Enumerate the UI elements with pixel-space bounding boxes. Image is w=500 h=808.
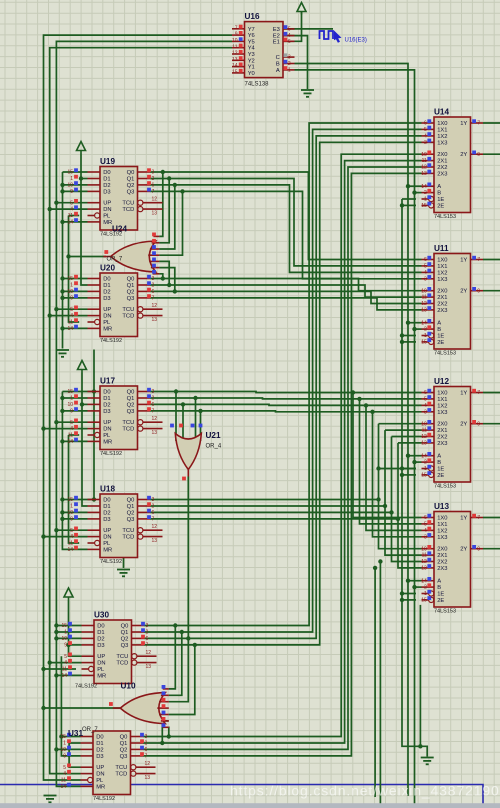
junction bus-A / U10 output: [41, 706, 45, 710]
svg-text:D2: D2: [103, 289, 110, 295]
wire U30.Q2 to U14.1X2: [144, 136, 422, 639]
junction select-A / U13.A: [406, 579, 410, 583]
svg-text:7: 7: [145, 754, 148, 760]
svg-text:1E: 1E: [437, 467, 444, 473]
wire select-B to U13.B: [415, 586, 422, 588]
wire block2 bus to U17.D1: [62, 397, 87, 399]
svg-text:2X3: 2X3: [437, 171, 447, 177]
svg-text:DN: DN: [103, 207, 111, 213]
svg-text:D1: D1: [103, 504, 110, 510]
junction VCC / U30.D3: [66, 643, 70, 647]
wire enable bus to U13.2E: [402, 599, 416, 601]
wire U19.Q0 to U11.1X0: [150, 172, 422, 260]
svg-text:2X0: 2X0: [437, 289, 447, 295]
svg-text:PL: PL: [97, 667, 105, 673]
wire U11.2Y to edge: [483, 290, 500, 292]
svg-text:U13: U13: [434, 502, 449, 511]
junction select-B / U14.B: [412, 190, 416, 194]
wire U18.Q0 vertical U12.2X4 to U13.2X4: [379, 424, 422, 549]
junction gnd bus / U19.D2: [60, 183, 64, 187]
wire PL bus to U18.PL: [69, 435, 80, 543]
svg-text:4: 4: [70, 426, 73, 432]
wire U19.Q2 to U11.1X2: [150, 185, 422, 273]
junction U17.Q / U21 feed: [181, 402, 185, 406]
wire bus-C to U30.D1: [56, 631, 81, 633]
svg-text:11: 11: [232, 44, 237, 50]
junction U20.Q / U24 feed: [167, 283, 171, 287]
svg-text:13: 13: [152, 317, 158, 323]
junction bus-C / U30.D2: [54, 636, 58, 640]
svg-text:2: 2: [288, 61, 291, 67]
svg-text:Q1: Q1: [127, 504, 135, 510]
svg-text:14: 14: [421, 184, 427, 190]
svg-text:74LS153: 74LS153: [434, 609, 456, 615]
svg-text:9: 9: [70, 409, 73, 415]
svg-text:10: 10: [421, 152, 427, 158]
svg-text:74LS192: 74LS192: [100, 451, 122, 457]
wire U17.Q feed to U21 input: [195, 398, 197, 441]
svg-text:1X0: 1X0: [437, 258, 447, 264]
state square U10 output: [109, 702, 113, 706]
svg-text:DN: DN: [97, 661, 105, 667]
junction local bus / U31.D0: [59, 734, 63, 738]
wire enable bus vertical to ground: [402, 199, 427, 757]
svg-text:10: 10: [421, 288, 427, 294]
svg-text:5: 5: [424, 127, 427, 133]
power VCC arrow (left top): [77, 142, 86, 154]
svg-text:12: 12: [146, 650, 152, 656]
wire U19.Q1 to U11.1X1: [150, 179, 422, 266]
svg-text:1Y: 1Y: [460, 391, 467, 397]
svg-text:11: 11: [68, 320, 73, 326]
wire U12.2Y to edge: [483, 423, 500, 425]
svg-text:15: 15: [421, 598, 427, 604]
wire U17.Q2 to U12.1X2: [150, 404, 422, 405]
svg-text:2X1: 2X1: [437, 159, 447, 165]
svg-text:2: 2: [146, 630, 149, 636]
wire bus-B to U30.DN: [50, 662, 82, 664]
svg-text:14: 14: [421, 320, 427, 326]
svg-text:PL: PL: [96, 778, 104, 784]
svg-text:5: 5: [424, 522, 427, 528]
wire U30.Q feed to U10 input: [169, 632, 182, 695]
svg-text:2E: 2E: [437, 473, 444, 479]
svg-text:2E: 2E: [437, 598, 444, 604]
wire U11.1Y to edge: [483, 259, 500, 261]
wire bus-C to U19.UP: [56, 202, 87, 204]
junction U31.Q / U10 feed: [167, 734, 171, 738]
svg-text:5: 5: [288, 27, 291, 33]
junction U20.Q / U24 feed: [161, 276, 165, 280]
wire enable bus to U11.1E: [402, 335, 416, 337]
wire VCC branch to U19.D1: [81, 178, 88, 180]
junction U18.Q2 / feed vertical: [389, 510, 393, 514]
svg-text:3: 3: [146, 623, 149, 629]
svg-text:D0: D0: [103, 390, 110, 396]
svg-text:14: 14: [60, 784, 66, 790]
svg-text:DN: DN: [103, 427, 111, 433]
junction U18.Q3 / feed vertical: [396, 517, 400, 521]
svg-text:1E: 1E: [437, 592, 444, 598]
svg-text:1: 1: [424, 466, 427, 472]
svg-text:2X0: 2X0: [437, 422, 447, 428]
svg-text:U24: U24: [112, 225, 127, 234]
wire U18.Q0 horizontal: [150, 499, 379, 501]
svg-text:B: B: [437, 585, 441, 591]
svg-text:3: 3: [288, 55, 291, 61]
svg-text:11: 11: [422, 553, 427, 559]
svg-text:2: 2: [145, 741, 148, 747]
svg-text:3: 3: [152, 389, 155, 395]
junction VCC / U17.D2: [80, 402, 84, 406]
svg-text:14: 14: [61, 673, 67, 679]
svg-text:2X3: 2X3: [437, 566, 447, 572]
svg-text:2: 2: [152, 504, 155, 510]
wire U17.Q feed to U21 input: [182, 404, 184, 441]
junction U18.Q0 / feed vertical: [376, 497, 380, 501]
junction gnd bus / U19.MR: [60, 220, 64, 224]
svg-text:12: 12: [421, 165, 427, 171]
wire bus-C to U20.UP: [56, 308, 87, 310]
junction U21 net / U30.Q2: [186, 636, 190, 640]
junction block2 bus / U18.D3: [60, 517, 64, 521]
svg-text:TCD: TCD: [122, 314, 134, 320]
svg-text:7: 7: [477, 515, 480, 521]
svg-text:12: 12: [152, 416, 158, 422]
junction enable bus / U11.2E: [400, 340, 404, 344]
svg-text:D3: D3: [103, 189, 110, 195]
svg-text:74LS192: 74LS192: [75, 684, 97, 690]
wire tap U12.1X2 down to U13.1X2: [366, 405, 422, 530]
svg-text:PL: PL: [103, 541, 111, 547]
wire U30.Q feed to U10 input: [169, 626, 176, 689]
junction select-A / U11.A: [406, 321, 410, 325]
svg-text:1: 1: [424, 197, 427, 203]
svg-text:3: 3: [424, 409, 427, 415]
wire local bus to U31.D0: [61, 736, 80, 738]
junction bus-A / U18.DN: [41, 534, 45, 538]
watermark bar: [0, 803, 500, 808]
svg-text:1X2: 1X2: [437, 403, 447, 409]
svg-text:6: 6: [424, 390, 427, 396]
svg-text:4: 4: [70, 207, 73, 213]
svg-text:11: 11: [422, 295, 427, 301]
svg-text:74LS153: 74LS153: [434, 484, 456, 490]
svg-text:MR: MR: [103, 439, 112, 445]
svg-text:11: 11: [62, 667, 67, 673]
svg-text:D1: D1: [103, 283, 110, 289]
svg-text:4: 4: [424, 528, 427, 534]
svg-text:13: 13: [421, 441, 427, 447]
wire U16.E2 to ground: [283, 36, 308, 89]
svg-text:4: 4: [64, 660, 67, 666]
svg-text:U10: U10: [121, 682, 136, 691]
svg-text:DN: DN: [103, 535, 111, 541]
svg-text:MR: MR: [96, 784, 105, 790]
svg-text:B: B: [276, 62, 280, 68]
wire D0 link to U17.D0: [88, 391, 95, 393]
svg-text:12: 12: [421, 434, 427, 440]
svg-text:Q3: Q3: [127, 409, 135, 415]
svg-text:15: 15: [421, 473, 427, 479]
svg-text:15: 15: [61, 623, 67, 629]
svg-text:9: 9: [477, 152, 480, 158]
svg-text:2Y: 2Y: [460, 152, 467, 158]
wire local bus to U31.D3: [61, 656, 80, 756]
svg-text:1: 1: [64, 630, 67, 636]
svg-text:3: 3: [152, 497, 155, 503]
wire bus-A to U30.PL: [44, 668, 77, 670]
svg-text:1X1: 1X1: [437, 127, 447, 133]
svg-text:3: 3: [424, 276, 427, 282]
svg-text:1Y: 1Y: [460, 516, 467, 522]
wire bus-A: U16.Y6 left/down to U31.PL: [44, 35, 233, 780]
junction U30.Q / U10 feed: [193, 643, 197, 647]
wire long vertical 2: [379, 562, 381, 807]
svg-text:D3: D3: [103, 517, 110, 523]
wire bus-C to U31.D2: [56, 748, 80, 750]
or-gate U24 (OR_7): [111, 241, 156, 272]
svg-text:A: A: [276, 68, 280, 74]
svg-text:11: 11: [68, 213, 73, 219]
svg-text:Q3: Q3: [127, 189, 135, 195]
svg-text:1: 1: [63, 741, 66, 747]
wire U12.1Y to edge: [483, 392, 500, 394]
ground (bottom right): [421, 758, 434, 765]
svg-text:3: 3: [424, 140, 427, 146]
svg-text:14: 14: [421, 453, 427, 459]
junction bus-A / U30.PL: [41, 667, 45, 671]
svg-text:15: 15: [421, 340, 427, 346]
svg-text:Y1: Y1: [248, 65, 255, 71]
svg-text:12: 12: [145, 761, 151, 767]
svg-text:15: 15: [232, 70, 238, 76]
svg-text:OR_4: OR_4: [206, 444, 222, 450]
svg-text:Q3: Q3: [127, 517, 135, 523]
wire U31.Q feed to U10 input: [168, 727, 170, 736]
svg-text:D2: D2: [97, 636, 104, 642]
svg-text:U17: U17: [100, 376, 115, 385]
svg-text:2: 2: [424, 460, 427, 466]
wire bus-C to U30.D2: [56, 637, 81, 639]
junction gnd bus / U20.D2: [60, 289, 64, 293]
ground (bottom left, partial): [44, 796, 57, 803]
wire U30.Q0 to U14.1X0: [144, 123, 422, 626]
svg-text:D3: D3: [103, 296, 110, 302]
svg-text:10: 10: [67, 183, 73, 189]
wire bus-C to U30.D0: [56, 625, 81, 627]
svg-text:Y6: Y6: [248, 33, 255, 39]
junction gnd bus / U20.D3: [60, 296, 64, 300]
svg-text:12: 12: [232, 51, 238, 57]
svg-text:11: 11: [422, 428, 427, 434]
svg-text:TCD: TCD: [116, 661, 128, 667]
svg-text:11: 11: [68, 541, 73, 547]
junction block2 bus / U18.D0: [60, 497, 64, 501]
wire gnd bus block1 vertical: [62, 172, 64, 349]
svg-text:7: 7: [152, 409, 155, 415]
svg-text:12: 12: [152, 303, 158, 309]
wire block2 bus to U17.MR: [62, 440, 87, 442]
svg-text:Q2: Q2: [127, 289, 135, 295]
wire enable bus to U11.2E: [402, 341, 416, 343]
svg-text:C: C: [276, 55, 280, 61]
svg-text:B: B: [437, 191, 441, 197]
svg-text:3: 3: [424, 534, 427, 540]
junction enable bus / U12.2E: [400, 473, 404, 477]
svg-text:1X1: 1X1: [437, 264, 447, 270]
svg-text:13: 13: [421, 566, 427, 572]
sheet border (blue): [0, 785, 483, 808]
wire tap U12.1X1 down to U13.1X1: [360, 399, 422, 524]
wire U20.Q3 to U11.2X7: [150, 298, 422, 310]
svg-text:9: 9: [70, 189, 73, 195]
junction U20.Q / U24 feed: [173, 289, 177, 293]
wire gnd bus to U20.MR: [63, 327, 88, 329]
svg-text:9: 9: [64, 643, 67, 649]
junction bus-B / U19.DN: [48, 207, 52, 211]
svg-text:TCU: TCU: [122, 528, 134, 534]
svg-text:13: 13: [232, 57, 238, 63]
junction block2 bus / U17.MR: [60, 439, 64, 443]
svg-text:Q2: Q2: [121, 636, 129, 642]
svg-text:1X0: 1X0: [437, 516, 447, 522]
svg-text:5: 5: [424, 397, 427, 403]
svg-text:2: 2: [424, 327, 427, 333]
wire to U12.2X5: [385, 429, 422, 431]
svg-text:MR: MR: [103, 326, 112, 332]
svg-text:Q3: Q3: [121, 643, 129, 649]
wire to U12.2X4: [379, 423, 422, 425]
svg-text:UP: UP: [103, 528, 111, 534]
wire gnd bus to U19.MR: [63, 221, 88, 223]
junction U17.Q / U21 feed: [198, 409, 202, 413]
wire U17.Q1 to U12.1X1: [150, 397, 422, 400]
wire bus-C: U16.Y5 left/down to U31.MR: [56, 41, 232, 786]
wire gnd bus to U20.D0: [63, 278, 88, 280]
junction U17.Q / U21 feed: [174, 389, 178, 393]
wire to U12.2X6: [392, 436, 422, 438]
wire U30.Q3 to U14.1X3: [144, 142, 422, 645]
svg-text:U30: U30: [94, 610, 109, 619]
svg-text:12: 12: [421, 301, 427, 307]
svg-text:D1: D1: [96, 741, 103, 747]
svg-text:U12: U12: [434, 377, 449, 386]
wire bus-C to U18.UP: [56, 529, 87, 531]
wire select-A to U12.A: [408, 455, 422, 457]
svg-text:15: 15: [67, 497, 73, 503]
svg-text:TCU: TCU: [122, 307, 134, 313]
wire VCC to U20.D1: [81, 154, 88, 286]
svg-text:Y7: Y7: [248, 27, 255, 33]
junction bus-C / U19.UP: [54, 201, 58, 205]
junction long vertical / U13.2X3 row: [373, 566, 377, 570]
junction long vertical 2 / U13.2X2 row: [378, 559, 382, 563]
svg-text:PL: PL: [103, 214, 111, 220]
svg-text:15: 15: [67, 170, 73, 176]
svg-text:OR_7: OR_7: [82, 727, 98, 733]
wire U17.Q feed to U21 input: [200, 411, 202, 441]
junction bus-C / U31.D2: [54, 747, 58, 751]
svg-text:D0: D0: [96, 735, 103, 741]
wire gnd bus to U20.D2: [63, 290, 88, 292]
svg-text:UP: UP: [97, 654, 105, 660]
svg-text:1X0: 1X0: [437, 121, 447, 127]
svg-text:74LS138: 74LS138: [245, 82, 270, 88]
junction gnd bus / U19.D3: [60, 189, 64, 193]
svg-text:9: 9: [477, 421, 480, 427]
svg-text:74LS192: 74LS192: [100, 338, 122, 344]
svg-text:A: A: [437, 321, 441, 327]
svg-text:5: 5: [70, 307, 73, 313]
svg-text:1: 1: [70, 396, 73, 402]
junction select-A / U14.A: [406, 184, 410, 188]
svg-text:1X1: 1X1: [437, 522, 447, 528]
svg-text:D2: D2: [96, 747, 103, 753]
junction gnd bus / U20.MR: [60, 326, 64, 330]
svg-text:1E: 1E: [437, 334, 444, 340]
svg-text:2X2: 2X2: [437, 560, 447, 566]
svg-text:5: 5: [70, 528, 73, 534]
junction D0 link / U18.D0: [92, 497, 96, 501]
svg-text:9: 9: [70, 517, 73, 523]
wire enable bus to U14.1E: [402, 198, 416, 200]
junction U24 output / PL bus: [66, 254, 70, 258]
wire U12.1E to feed vertical: [379, 468, 417, 470]
svg-text:Y5: Y5: [248, 39, 255, 45]
svg-text:D3: D3: [96, 754, 103, 760]
svg-text:Y4: Y4: [248, 46, 256, 52]
svg-text:Y2: Y2: [248, 58, 255, 64]
svg-text:7: 7: [477, 390, 480, 396]
wire U16.E3 to clock: [283, 28, 333, 30]
svg-text:Q1: Q1: [120, 741, 128, 747]
svg-text:4: 4: [63, 771, 66, 777]
svg-text:14: 14: [67, 326, 73, 332]
wire enable bus to U14.2E: [402, 204, 416, 206]
junction enable bus / U13.2E: [400, 598, 404, 602]
svg-text:UP: UP: [103, 201, 111, 207]
wire block2 bus to U18.D3: [62, 518, 87, 520]
svg-text:U21: U21: [206, 431, 221, 440]
svg-text:15: 15: [421, 203, 427, 209]
svg-text:10: 10: [67, 289, 73, 295]
wire tap U12.1X3 down to U13.1X3: [373, 412, 422, 537]
wire U20.Q0 to U11.2X4: [150, 279, 422, 291]
junction tap / U12.1X2: [364, 403, 368, 407]
svg-text:D2: D2: [103, 402, 110, 408]
wire U13.2Y to edge: [483, 548, 500, 550]
junction U12.1E / feed vertical: [376, 466, 380, 470]
svg-text:D0: D0: [103, 170, 110, 176]
junction select-B / U11.B: [412, 327, 416, 331]
svg-text:Q3: Q3: [120, 754, 128, 760]
svg-text:2X1: 2X1: [437, 428, 447, 434]
svg-text:1X3: 1X3: [437, 535, 447, 541]
wire U31.D1 to U31.UP: [69, 743, 80, 767]
svg-text:12: 12: [152, 197, 158, 203]
svg-text:1: 1: [424, 591, 427, 597]
wire select-A bus: U16.B down right column: [295, 64, 409, 797]
junction select-A / U12.A: [406, 454, 410, 458]
svg-text:D3: D3: [97, 643, 104, 649]
junction block2 bus / U17.D1: [60, 396, 64, 400]
wire tap U12.1X0 down to U13.1X0: [353, 393, 422, 518]
svg-text:10: 10: [61, 636, 67, 642]
svg-text:D0: D0: [103, 277, 110, 283]
svg-text:6: 6: [152, 510, 155, 516]
svg-text:D1: D1: [97, 630, 104, 636]
